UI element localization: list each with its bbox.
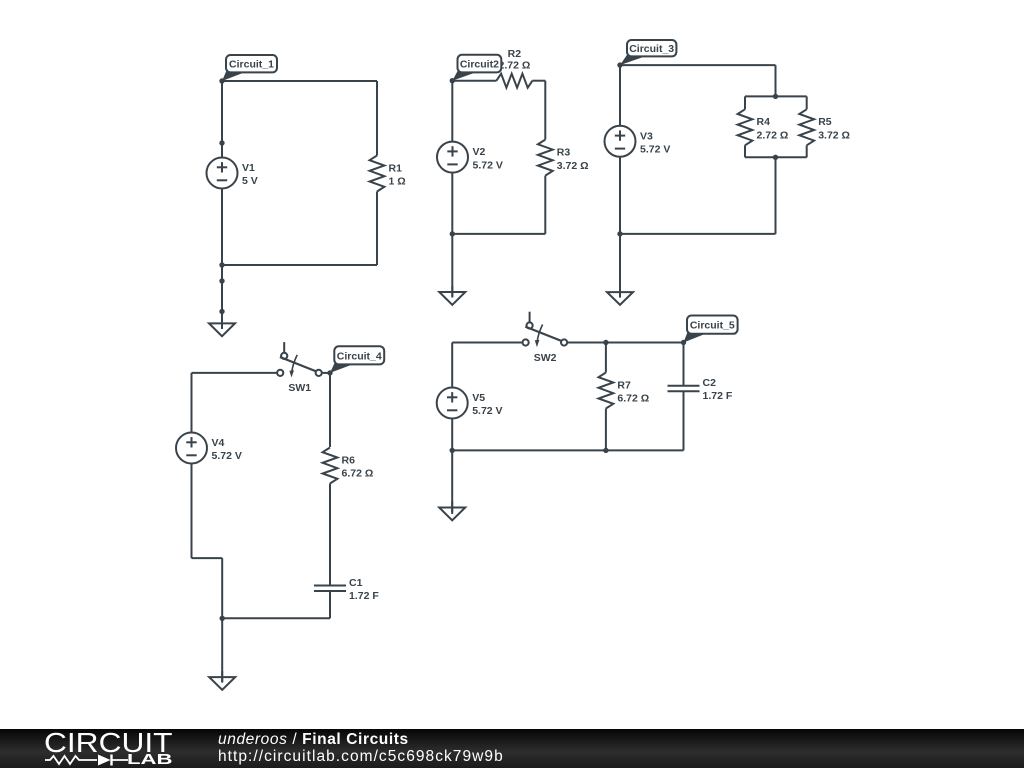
voltage source V5 — [437, 388, 503, 419]
resistor R4 — [738, 109, 789, 145]
svg-text:Circuit2: Circuit2 — [460, 59, 499, 71]
voltage source V1 — [207, 158, 258, 189]
wire R4 top lead — [744, 96, 746, 109]
resistor R1 — [370, 156, 406, 192]
wire V3 bottom lead — [619, 157, 621, 234]
svg-text:5.72 V: 5.72 V — [212, 450, 242, 462]
junction bottom bus — [773, 155, 778, 160]
wire V1 bottom lead — [221, 189, 223, 266]
wire R1 bottom lead — [376, 192, 378, 266]
svg-text:2.72 Ω: 2.72 Ω — [499, 59, 531, 71]
net flag Circuit2 — [452, 55, 501, 81]
svg-text:R7: R7 — [617, 379, 631, 391]
svg-text:V5: V5 — [472, 392, 485, 404]
voltage source V3 — [605, 126, 671, 157]
svg-text:V3: V3 — [640, 130, 653, 142]
junction top bus — [773, 94, 778, 99]
junction bottom-left of Circuit_5 — [450, 448, 455, 453]
net flag Circuit_3 — [620, 40, 676, 65]
svg-text:C1: C1 — [349, 577, 363, 589]
svg-text:R6: R6 — [342, 454, 356, 466]
switch SW1 — [277, 342, 322, 394]
resistor R2 — [496, 48, 532, 87]
resistor R7 — [599, 373, 650, 409]
node Circuit_3 top-left junction — [617, 62, 622, 67]
node Circuit_1 top-left junction — [219, 78, 224, 83]
wire V4 bottom lead — [191, 464, 193, 559]
wire to ground of Circuit_4 — [221, 618, 223, 682]
svg-text:R1: R1 — [389, 162, 403, 174]
net flag Circuit_1 — [222, 55, 277, 81]
wire V5 top lead — [451, 343, 453, 388]
voltage source V2 — [437, 142, 503, 173]
footer bar — [0, 729, 1024, 768]
switch SW2 — [523, 312, 568, 364]
wire C2 top lead — [683, 343, 685, 386]
wire C1 bottom lead — [329, 591, 331, 618]
svg-text:V2: V2 — [473, 146, 486, 158]
svg-text:SW2: SW2 — [534, 352, 557, 364]
ground of Circuit_3 — [607, 286, 633, 305]
svg-text:5 V: 5 V — [242, 175, 258, 187]
wire bottom of Circuit_1 — [222, 264, 377, 266]
wire R3 top lead — [544, 81, 546, 140]
wire bottom of Circuit_5 — [452, 449, 683, 451]
footer url — [218, 749, 504, 764]
wire R6 to C1 — [329, 484, 331, 586]
wire V4 top lead — [191, 373, 193, 433]
wire top of Circuit_3 — [620, 64, 776, 66]
net flag Circuit_5 — [684, 316, 738, 343]
svg-text:5.72 V: 5.72 V — [640, 144, 670, 156]
wire to ground of Circuit_1 — [221, 265, 223, 329]
wire top-left of Circuit_4 — [192, 372, 278, 374]
resistor R3 — [538, 140, 589, 176]
wire R5 bottom lead — [806, 145, 808, 157]
net flag Circuit_4 — [330, 346, 384, 373]
capacitor C1 — [314, 577, 379, 602]
wire down to parallel pair — [775, 65, 777, 96]
svg-text:3.72 Ω: 3.72 Ω — [557, 160, 589, 172]
wire V1 top lead — [221, 81, 223, 158]
svg-text:Circuit_3: Circuit_3 — [629, 43, 674, 55]
svg-text:R4: R4 — [757, 116, 771, 128]
svg-text:V4: V4 — [212, 437, 225, 449]
junction on ground wire 2 — [219, 309, 224, 314]
wire bottom of Circuit_2 — [452, 233, 545, 235]
wire V2 bottom lead — [451, 173, 453, 234]
svg-text:R5: R5 — [818, 116, 832, 128]
svg-text:6.72 Ω: 6.72 Ω — [617, 393, 649, 405]
svg-text:6.72 Ω: 6.72 Ω — [342, 468, 374, 480]
wire R4 bottom lead — [744, 145, 746, 157]
svg-text:C2: C2 — [703, 377, 717, 389]
svg-text:1.72 F: 1.72 F — [703, 390, 733, 402]
svg-text:Circuit_4: Circuit_4 — [337, 350, 382, 362]
wire R2 to corner — [532, 80, 545, 82]
svg-text:5.72 V: 5.72 V — [472, 405, 502, 417]
wire bottom bus of R4 R5 — [745, 156, 807, 158]
node Circuit_4 junction — [327, 370, 332, 375]
wire R7 top lead — [605, 343, 607, 373]
wire to ground of Circuit_2 — [451, 234, 453, 298]
svg-text:2.72 Ω: 2.72 Ω — [757, 130, 789, 142]
junction on V1 top wire — [219, 140, 224, 145]
wire from parallel pair down — [775, 157, 777, 234]
wire top-left of Circuit_5 — [452, 342, 522, 344]
wire V2 top lead — [451, 81, 453, 142]
voltage source V4 — [176, 433, 242, 464]
logo resistor and diode — [45, 756, 97, 764]
svg-text:3.72 Ω: 3.72 Ω — [818, 130, 850, 142]
svg-text:Circuit_5: Circuit_5 — [690, 320, 735, 332]
wire top bus of R4 R5 — [745, 95, 807, 97]
wire jog right — [192, 557, 223, 559]
junction bottom-left of Circuit_4 — [220, 616, 225, 621]
wire from node to R2 — [452, 80, 496, 82]
wire R7 bottom lead — [605, 409, 607, 451]
node Circuit_5 junction — [681, 340, 686, 345]
resistor R5 — [799, 109, 850, 145]
junction bottom-left of Circuit_1 — [219, 262, 224, 267]
wire to ground of Circuit_3 — [619, 234, 621, 298]
junction bottom-left of Circuit_3 — [617, 231, 622, 236]
svg-text:R3: R3 — [557, 146, 571, 158]
capacitor C2 — [668, 377, 733, 402]
CircuitLab logo — [0, 729, 190, 768]
svg-text:SW1: SW1 — [288, 382, 311, 394]
wire switch to node — [322, 372, 330, 374]
wire V5 bottom lead — [451, 419, 453, 451]
wire R3 bottom lead — [544, 176, 546, 234]
junction on ground wire 1 — [219, 278, 224, 283]
wire to ground of Circuit_5 — [451, 450, 453, 514]
ground of Circuit_2 — [439, 286, 465, 305]
wire bottom of Circuit_3 — [620, 233, 776, 235]
junction bottom-left of Circuit_2 — [450, 231, 455, 236]
svg-text:V1: V1 — [242, 162, 255, 174]
ground of Circuit_1 — [209, 317, 235, 336]
svg-text:LAB: LAB — [127, 752, 173, 768]
junction R7 top — [603, 340, 608, 345]
wire bottom of Circuit_4 — [222, 617, 330, 619]
ground of Circuit_5 — [439, 502, 465, 521]
wire R1 top lead — [376, 81, 378, 156]
svg-text:5.72 V: 5.72 V — [473, 159, 503, 171]
wire R6 top lead — [329, 373, 331, 447]
svg-text:1.72 F: 1.72 F — [349, 590, 379, 602]
node Circuit2 top-left junction — [450, 78, 455, 83]
wire jog down — [221, 558, 223, 618]
svg-text:R2: R2 — [508, 48, 522, 60]
junction R7 bottom — [603, 448, 608, 453]
svg-text:Circuit_1: Circuit_1 — [229, 59, 274, 71]
wire R5 top lead — [806, 96, 808, 109]
resistor R6 — [323, 448, 374, 484]
wire C2 bottom lead — [683, 391, 685, 450]
footer title — [218, 732, 409, 747]
svg-text:1 Ω: 1 Ω — [389, 176, 406, 188]
ground of Circuit_4 — [209, 671, 235, 690]
wire top of Circuit_1 — [222, 80, 377, 82]
wire V3 top lead — [619, 65, 621, 126]
wire switch to C2 node — [567, 342, 683, 344]
